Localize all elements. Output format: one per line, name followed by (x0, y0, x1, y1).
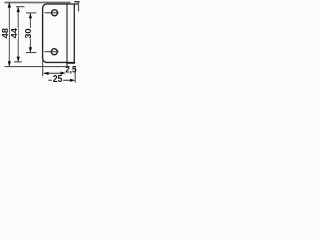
25 right arrow (70, 79, 75, 82)
top-right tick (74, 1, 79, 3)
30 bottom extension (26, 52, 36, 54)
25 right extension line (74, 66, 76, 82)
dimension line 48 (8, 2, 10, 66)
upper right arrow (61, 72, 66, 75)
top-right short vertical (adjacent figure remnant) (78, 1, 80, 11)
dimension line 25: upper segment (44, 72, 61, 74)
bend line x67 (66, 4, 68, 68)
30 top extension (26, 12, 36, 14)
svg-text:25: 25 (53, 74, 63, 85)
25 left extension line (42, 60, 44, 76)
svg-text:30: 30 (23, 28, 33, 39)
svg-text:44: 44 (9, 28, 19, 39)
hole bottom: center line (44, 51, 59, 53)
hole top: center line (45, 12, 59, 14)
dimension line 25: lower segment (48, 79, 71, 81)
top extension line (48 dim) (5, 2, 71, 4)
label 44 (11, 28, 18, 39)
plate outline (front view) (43, 4, 79, 62)
44 top extension (16, 6, 25, 8)
label 48 (2, 28, 9, 39)
hole bottom: circle (51, 49, 57, 55)
label 30 (25, 28, 32, 39)
hole top: circle (52, 10, 58, 16)
right edge (73, 4, 75, 62)
foot bottom line / 48 bottom extension (5, 66, 70, 68)
dimension line 30 (29, 13, 31, 52)
label 25 (52, 75, 63, 84)
25 left arrow (43, 72, 48, 75)
flange bottom edge (67, 62, 76, 64)
dimension line 44 (17, 7, 19, 62)
svg-text:2,5: 2,5 (65, 63, 76, 74)
44 bottom extension (14, 61, 22, 63)
